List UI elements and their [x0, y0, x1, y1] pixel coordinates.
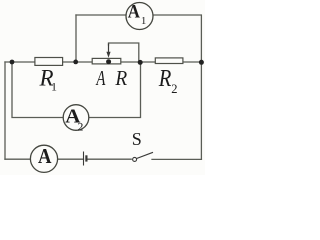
- wire A2 branch left vertical and horizontal: [12, 62, 63, 118]
- svg-text:A: A: [95, 66, 106, 90]
- switch S pivot: [133, 157, 137, 161]
- wire main row between rheostat and R2: [122, 61, 155, 63]
- svg-text:A: A: [128, 1, 140, 22]
- wire bottom from switch to right rail: [152, 158, 201, 160]
- wire A1 branch vertical: [75, 15, 77, 62]
- wire left rail: [4, 62, 6, 159]
- wire top from left branch corner to ammeter A1: [76, 14, 126, 16]
- wire main row right of R2: [184, 61, 202, 63]
- junction node A1 branch: [73, 60, 78, 65]
- battery short plate: [85, 155, 87, 161]
- svg-text:2: 2: [171, 82, 177, 96]
- switch S lever: [137, 152, 153, 158]
- wire bottom from ammeter A to battery: [58, 158, 83, 160]
- junction node left (A2 tap): [10, 60, 15, 65]
- ammeter A2: [63, 105, 89, 131]
- wire A2 branch right horizontal and vertical: [89, 62, 140, 118]
- wire top from ammeter A1 to top-right corner and down right rail: [153, 15, 201, 62]
- resistor R1: [35, 58, 63, 66]
- rheostat slider arrow: [108, 44, 110, 53]
- rheostat slider contact dot: [106, 59, 111, 64]
- svg-text:R: R: [114, 66, 127, 90]
- svg-text:S: S: [132, 129, 142, 149]
- ammeter A1: [126, 3, 153, 30]
- wire bottom from battery to switch: [86, 158, 131, 160]
- svg-text:A: A: [38, 144, 52, 168]
- svg-text:R: R: [158, 66, 172, 92]
- resistor R2: [155, 58, 183, 64]
- junction node right rail: [199, 60, 204, 65]
- rheostat R body: [92, 58, 121, 64]
- battery long plate: [83, 152, 85, 166]
- ammeter A: [30, 145, 57, 172]
- wire right rail lower segment: [200, 62, 202, 159]
- wire main row left segment: [5, 61, 35, 63]
- svg-text:1: 1: [51, 80, 57, 94]
- svg-text:2: 2: [77, 119, 83, 133]
- junction node rheostat/R2: [138, 60, 143, 65]
- wire bottom left segment: [5, 158, 30, 160]
- svg-text:1: 1: [141, 15, 147, 27]
- wire slider loop up-over-down: [109, 43, 139, 62]
- wire main row between R1 and rheostat: [63, 61, 92, 63]
